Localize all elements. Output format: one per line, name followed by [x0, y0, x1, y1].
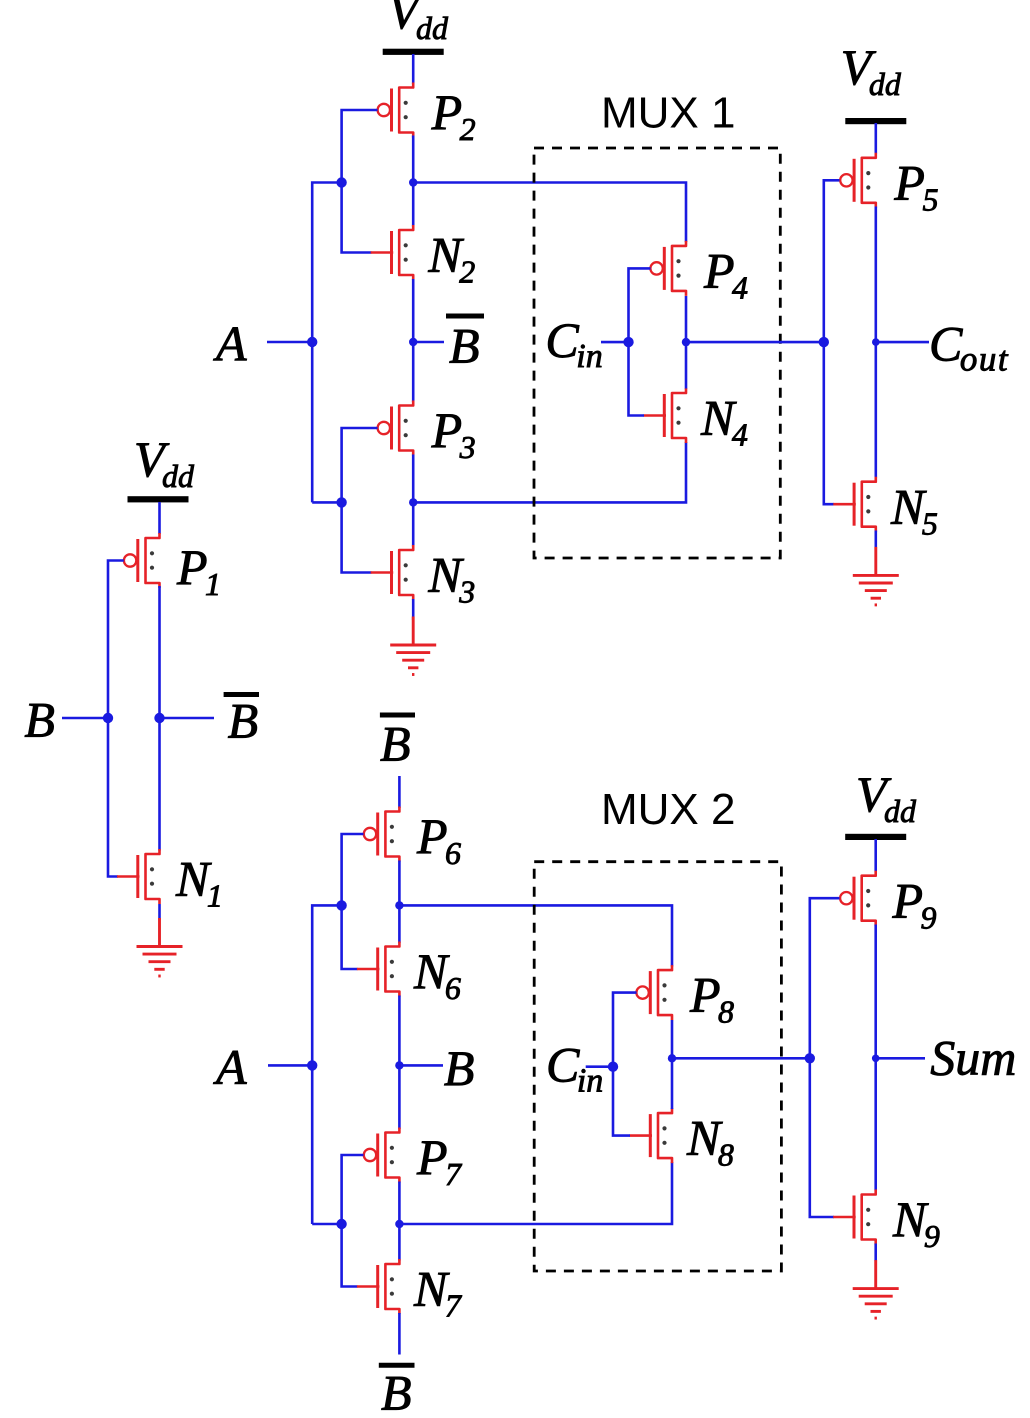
svg-text:B: B [449, 318, 480, 374]
wire MUX1 output to inverter gate rail [686, 341, 824, 344]
wire gate rail: P6 gate to N6 gate [342, 834, 364, 969]
wire to B label (bottom middle) [399, 1064, 443, 1067]
wire N1 source to ground [158, 904, 161, 920]
wire N3 source to ground [412, 599, 415, 620]
wire N9 source to ground [874, 1244, 877, 1262]
transistor N6 (NMOS) [357, 942, 400, 997]
wire gate rail: P9 gate to N9 gate [810, 898, 840, 1217]
junction gate rail row2 (bottom) [336, 1219, 346, 1229]
junction Bbar node (top middle) [409, 338, 417, 346]
wire A rail upper segment [312, 183, 341, 503]
junction Sum node [872, 1055, 880, 1063]
Vdd supply bar (Cout column) [845, 118, 906, 124]
transistor N9 (NMOS) [833, 1190, 876, 1245]
junction B node (bottom middle) [395, 1061, 403, 1069]
Vdd supply bar (left inverter) [128, 496, 189, 502]
junction node row1 (bottom) on main rail [395, 901, 403, 909]
junction gate rail row2 [336, 497, 346, 507]
svg-text:A: A [213, 1039, 247, 1095]
wire gate rail to N7 gate [342, 1224, 358, 1287]
transistor P3 (PMOS) [378, 401, 414, 456]
wire gate rail to N3 gate [342, 502, 372, 572]
wire row2 node into MUX1 to N4 source [413, 442, 686, 502]
transistor P4 (PMOS) [650, 241, 686, 296]
wire gate rail: P1 gate to N1 gate [108, 561, 124, 877]
wire P7 gate to gate-rail junction row2 (bottom) [342, 1155, 364, 1224]
wire P6 drain to N6 drain [398, 861, 401, 944]
wire gate rail: P5 gate to N5 gate [824, 180, 840, 504]
junction gate rail row1 (bottom) [336, 900, 346, 910]
overbar of Bbar label (bottom top) [380, 713, 415, 718]
transistor N1 (NMOS) [117, 849, 160, 904]
ground (Cout column) [853, 547, 899, 605]
transistor N2 (NMOS) [371, 225, 414, 280]
wire A rail jog to gate rail row2 [312, 501, 341, 504]
transistor N7 (NMOS) [357, 1259, 400, 1314]
ground (left inverter) [137, 918, 183, 976]
wire N5 source to ground [874, 531, 877, 548]
junction Cin node MUX2 [608, 1062, 618, 1072]
wire P3 gate to gate-rail junction row2 [342, 428, 378, 502]
junction A input node [307, 337, 317, 347]
transistor N8 (NMOS) [630, 1108, 673, 1163]
overbar of Bbar output label [224, 692, 259, 697]
wire P5 drain to N5 drain (Cout node) [874, 207, 877, 478]
wire row2 node into MUX2 to N8 source [399, 1162, 672, 1224]
svg-text:B: B [381, 1365, 412, 1414]
junction Cout node [872, 338, 880, 346]
junction B input node [103, 713, 113, 723]
wire A input lead [267, 341, 312, 344]
svg-text:Sum: Sum [930, 1029, 1016, 1085]
svg-text:B: B [380, 716, 411, 772]
transistor P8 (PMOS) [636, 965, 672, 1020]
wire MUX2 gate rail P8 gate to N8 gate [613, 993, 637, 1136]
junction node row2 on main rail [409, 498, 417, 506]
wire to Cout label [876, 341, 929, 344]
wire P4 drain to N4 drain (MUX1 output) [685, 296, 688, 389]
wire N2 source to P3 source (Bbar node) [412, 279, 415, 402]
wire Vdd to P9 source [874, 839, 877, 872]
wire to Bbar output label [160, 717, 215, 720]
svg-text:B: B [228, 693, 259, 749]
transistor N4 (NMOS) [644, 388, 687, 443]
wire P2 drain to N2 drain [412, 136, 415, 227]
wire A input lead (bottom) [268, 1064, 312, 1067]
transistor P5 (PMOS) [840, 153, 876, 208]
junction MUX2 output node [668, 1054, 676, 1062]
wire MUX2 output to inverter gate rail [672, 1057, 810, 1060]
transistor P1 (PMOS) [124, 533, 160, 588]
wire Vdd to P1 source [158, 502, 161, 534]
wire P7 drain to N7 drain [398, 1182, 401, 1261]
wire B input lead [62, 717, 108, 720]
junction gate rail Cout column [819, 337, 829, 347]
dashed box MUX 1 [534, 148, 780, 558]
wire P3 drain to N3 drain [412, 455, 415, 547]
overbar of Bbar label (bottom bottom) [379, 1363, 415, 1368]
wire P9 drain to N9 drain (Sum node) [874, 925, 877, 1191]
ground (Sum column) [853, 1260, 899, 1318]
wire Cin lead MUX1 [601, 341, 629, 344]
junction gate rail Sum column [805, 1053, 815, 1063]
wire P1 drain to N1 drain (Bbar node) [158, 586, 161, 851]
Vdd supply bar (top middle) [383, 49, 444, 55]
wire N6 source to P7 source (B node) [398, 996, 401, 1130]
wire to Bbar label (top middle) [413, 341, 444, 344]
junction MUX1 output node [682, 338, 690, 346]
wire gate rail: P2 gate to N2 gate [342, 110, 378, 253]
junction node row1 on main rail [409, 178, 417, 186]
wire MUX1 gate rail P4 gate to N4 gate [629, 268, 651, 415]
transistor N3 (NMOS) [371, 545, 414, 600]
transistor P6 (PMOS) [364, 807, 400, 862]
transistor N5 (NMOS) [833, 477, 876, 532]
wire Vdd to P5 source [874, 123, 877, 154]
overbar of Bbar label (top middle) [446, 314, 484, 319]
junction gate rail row1 [336, 177, 346, 187]
junction A input node (bottom) [307, 1060, 317, 1070]
svg-text:B: B [24, 691, 55, 747]
wire A rail jog to gate rail row2 (bottom) [312, 1223, 341, 1226]
ground (top middle) [390, 617, 436, 675]
wire N7 source to Bbar rail bottom [398, 1313, 401, 1355]
wire Vdd to P2 source [412, 54, 415, 84]
wire Bbar rail to P6 source [398, 776, 401, 808]
junction Cin node MUX1 [623, 337, 633, 347]
transistor P7 (PMOS) [364, 1128, 400, 1183]
junction Bbar node (left inverter) [154, 713, 164, 723]
svg-text:B: B [444, 1040, 475, 1096]
wire A rail lower segment [312, 905, 341, 1224]
Vdd supply bar (Sum column) [845, 834, 906, 840]
dashed box MUX 2 [534, 862, 781, 1271]
wire to Sum label [876, 1057, 925, 1060]
transistor P9 (PMOS) [840, 871, 876, 926]
junction node row2 (bottom) on main rail [395, 1220, 403, 1228]
transistor P2 (PMOS) [378, 83, 414, 138]
wire row1 node into MUX2 to P8 source [399, 905, 672, 966]
wire row1 node into MUX1 to P4 source [413, 183, 686, 243]
wire P8 drain to N8 drain (MUX2 output) [671, 1020, 674, 1109]
wire Cin lead MUX2 [586, 1065, 613, 1068]
svg-text:MUX 1: MUX 1 [601, 89, 735, 138]
svg-text:MUX 2: MUX 2 [601, 785, 735, 834]
svg-text:A: A [213, 316, 247, 372]
